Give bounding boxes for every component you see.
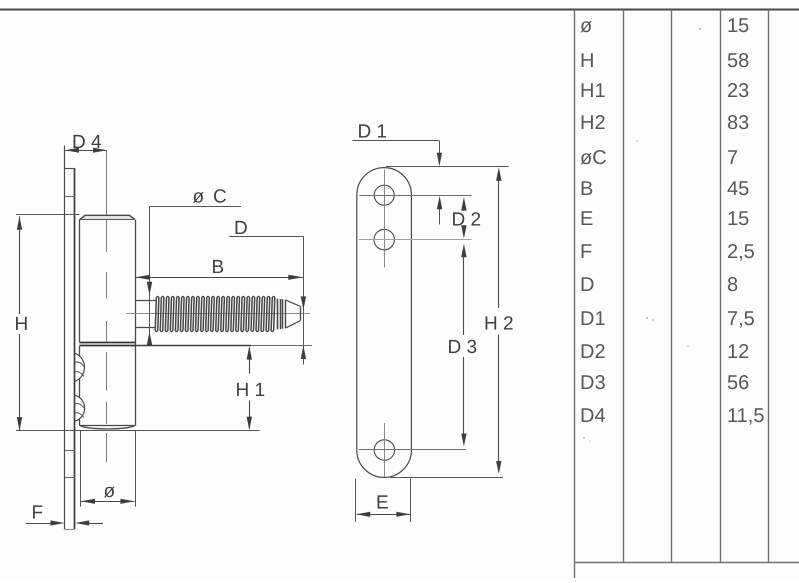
top border line	[0, 9, 799, 11]
svg-text:7,5: 7,5	[727, 308, 755, 330]
svg-text:11,5: 11,5	[727, 405, 764, 427]
oC leader line	[150, 206, 242, 208]
svg-text:8: 8	[727, 274, 738, 296]
barrel left edge upper half	[79, 220, 81, 343]
joint extension line thin part	[251, 345, 312, 347]
svg-text:15: 15	[727, 208, 749, 230]
knuckle bump 1	[75, 353, 85, 381]
svg-text:H2: H2	[580, 112, 606, 134]
svg-text:D4: D4	[580, 405, 606, 427]
screw tip end face	[300, 306, 302, 320]
table labels column	[580, 15, 607, 427]
barrel top edge with chamfers	[80, 215, 135, 219]
svg-text:H 2: H 2	[484, 314, 514, 335]
dimension D4 line	[65, 150, 107, 152]
svg-text:D3: D3	[580, 372, 606, 394]
dimension diameter line	[81, 501, 134, 503]
svg-text:D: D	[234, 218, 248, 239]
plate top extension line	[386, 166, 509, 168]
plate bottom extension line	[390, 477, 503, 479]
plate tick 3	[65, 477, 75, 479]
screw shank top line	[135, 300, 156, 302]
svg-text:D 3: D 3	[448, 337, 478, 358]
table vertical line 2	[623, 10, 625, 563]
plate top edge	[65, 168, 75, 170]
svg-text:58: 58	[727, 50, 749, 72]
hole 1	[374, 185, 394, 205]
knuckle bump 1 shading	[75, 362, 84, 367]
svg-text:7: 7	[727, 147, 738, 169]
svg-text:H1: H1	[580, 80, 606, 102]
dimension B line	[136, 277, 303, 279]
hole 1 horizontal centerline	[360, 195, 472, 197]
dimension diameter (bottom) extension lines	[80, 431, 82, 507]
vertical centerline bottom	[384, 423, 386, 477]
plate outline obround	[357, 168, 412, 478]
mounting plate left edge	[64, 146, 66, 530]
hinge joint line upper	[80, 342, 135, 344]
table bottom line	[575, 562, 799, 564]
svg-text:45: 45	[727, 178, 749, 200]
vertical centerline top	[384, 170, 386, 268]
scan specks	[646, 317, 648, 319]
svg-text:ø: ø	[104, 481, 116, 502]
barrel right edge	[135, 220, 137, 426]
screw centerline	[126, 313, 310, 315]
svg-text:E: E	[376, 493, 389, 514]
table vertical line 1	[574, 10, 576, 579]
svg-text:2,5: 2,5	[727, 241, 755, 263]
svg-text:øC: øC	[580, 147, 607, 169]
svg-text:D: D	[580, 274, 594, 296]
hole 2	[374, 229, 394, 249]
D leader line	[229, 236, 303, 238]
hole 3	[374, 440, 394, 460]
screw tip cone top	[286, 300, 300, 306]
svg-text:83: 83	[727, 112, 749, 134]
barrel bottom edge	[80, 425, 135, 427]
table values column	[727, 15, 764, 427]
dimension D2 arrows	[461, 197, 466, 211]
dimension D3 line	[461, 244, 466, 258]
svg-text:E: E	[580, 208, 593, 230]
thread runout rings	[277, 299, 279, 330]
H top extension line	[16, 214, 80, 216]
cylinder axis centerline	[106, 151, 108, 463]
screw tip cone bottom	[286, 321, 300, 328]
D1 lower arrow	[439, 208, 441, 224]
barrel top face fill	[80, 215, 135, 219]
dimension H2 line	[496, 167, 501, 181]
dimension E line	[357, 514, 410, 516]
dimension F lines	[26, 523, 52, 525]
hole 2 horizontal centerline	[359, 239, 472, 241]
table vertical line 3	[671, 10, 673, 563]
svg-text:D 1: D 1	[358, 122, 388, 143]
barrel left edge lower half	[79, 346, 81, 426]
plate tick 1	[65, 196, 75, 198]
svg-text:D 2: D 2	[452, 210, 482, 231]
svg-text:F: F	[32, 503, 44, 524]
svg-text:H: H	[580, 50, 594, 72]
barrel top second line	[80, 219, 135, 221]
knuckle bump 2	[75, 395, 85, 421]
joint extension line thick part	[135, 345, 251, 347]
svg-text:B: B	[212, 257, 225, 278]
svg-text:C: C	[213, 187, 227, 208]
svg-text:B: B	[580, 178, 593, 200]
dimension H line	[19, 216, 21, 314]
mounting plate right edge	[74, 168, 76, 529]
D1 leader line	[352, 140, 439, 142]
table vertical line 5	[768, 10, 770, 563]
hinge joint line lower	[80, 345, 135, 347]
dimension E extension lines	[355, 479, 357, 522]
svg-text:H 1: H 1	[236, 380, 266, 401]
svg-text:15: 15	[727, 15, 749, 37]
svg-text:F: F	[580, 241, 592, 263]
svg-text:ø: ø	[193, 187, 205, 208]
knuckle bump 2 shading	[75, 403, 84, 408]
svg-text:ø: ø	[580, 15, 592, 37]
screw thread crests	[155, 297, 275, 330]
table vertical line 4	[720, 10, 722, 563]
barrel bottom dish arc	[81, 426, 135, 429]
plate tick 2	[65, 450, 75, 452]
dimension H1 line	[249, 348, 251, 374]
H bottom extension line	[16, 430, 260, 432]
screw shank bottom line	[135, 327, 156, 329]
svg-text:12: 12	[727, 341, 749, 363]
svg-text:23: 23	[727, 80, 749, 102]
svg-text:56: 56	[727, 372, 749, 394]
svg-text:H: H	[15, 314, 29, 335]
plate bottom edge	[65, 529, 75, 531]
hole 3 horizontal centerline	[359, 449, 466, 451]
svg-text:D1: D1	[580, 308, 606, 330]
svg-text:D2: D2	[580, 341, 606, 363]
